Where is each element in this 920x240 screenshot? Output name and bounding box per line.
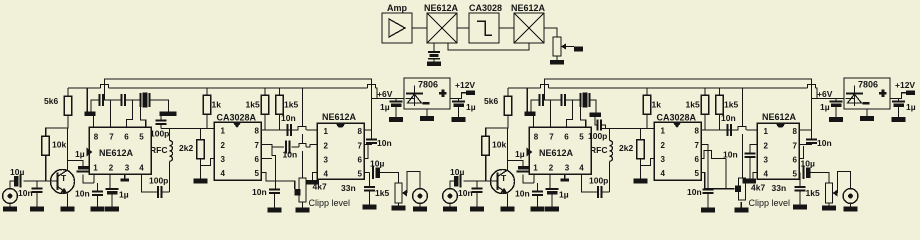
wire row to CA pin1 — [161, 128, 214, 130]
svg-text:1: 1 — [221, 127, 226, 136]
block Amp — [382, 3, 412, 43]
capacitor C pin6 — [122, 94, 126, 106]
block NE612A mixer2 — [511, 3, 546, 43]
wire blk4 — [544, 28, 557, 37]
ground under J1 #2 — [443, 203, 457, 212]
wire pin6b stub #2 — [799, 146, 804, 159]
svg-text:7: 7 — [109, 133, 114, 142]
ground emitter #2 — [501, 207, 515, 212]
resistor 5k6 #2 — [484, 96, 512, 115]
capacitor C pin8 — [100, 94, 104, 106]
IC CA3028A U2 — [214, 113, 261, 181]
svg-text:33n: 33n — [772, 183, 787, 193]
junction bar pin8 — [85, 112, 96, 117]
wire 10u to pot #2 — [811, 173, 830, 184]
ground emitter — [61, 207, 75, 212]
svg-text:1µ: 1µ — [380, 102, 390, 112]
svg-text:NE612A: NE612A — [322, 112, 357, 122]
ground under input 10n — [30, 192, 44, 212]
resistor 1k5 b #2 — [716, 95, 739, 114]
wire 6V vert — [371, 99, 373, 140]
svg-text:3: 3 — [565, 164, 570, 173]
wire 33n stem #2 — [799, 173, 801, 188]
wire pin5b out #2 — [799, 172, 800, 174]
svg-text:4: 4 — [139, 164, 144, 173]
ground 1u 6V #2 — [829, 107, 843, 122]
svg-text:6: 6 — [124, 133, 129, 142]
ground pin4b — [306, 180, 319, 185]
capacitor 10n row1 #2 — [721, 113, 736, 136]
wire blk crystal stem — [433, 43, 435, 51]
svg-text:CA3028A: CA3028A — [217, 113, 257, 123]
wire pin2 stub #2 — [549, 174, 551, 189]
ground 4k7 #2 — [734, 202, 748, 213]
capacitor 1u 6V #2 — [820, 102, 843, 113]
svg-text:+12V: +12V — [455, 80, 475, 90]
junction bar pin8 #2 — [525, 112, 536, 117]
regulator 7806 #2 — [844, 78, 890, 109]
wire cap2 row — [272, 144, 317, 148]
capacitor 10n input — [18, 188, 43, 198]
capacitor 33n — [341, 183, 375, 193]
input connector J1 #2 — [443, 189, 458, 204]
wire 2k2 bottom — [200, 159, 202, 179]
wire 4k7 feed2 #2 — [742, 134, 744, 178]
capacitor 10n pin1 #2 — [515, 189, 543, 199]
svg-text:1k5: 1k5 — [375, 188, 389, 198]
wire 100p lower right — [162, 191, 170, 193]
wire crystal right #2 — [590, 100, 597, 113]
svg-text:10µ: 10µ — [450, 167, 464, 177]
svg-text:+12V: +12V — [895, 80, 915, 90]
svg-text:CA3028A: CA3028A — [657, 113, 697, 123]
svg-text:6: 6 — [793, 156, 798, 165]
wire 10k bottom #2 — [485, 155, 487, 181]
wire 1u to pin1 — [83, 175, 94, 184]
ground J2 — [413, 203, 427, 212]
ground 7806 — [420, 109, 434, 121]
wire 10u to pot — [380, 173, 399, 184]
potentiometer 4k7 #2 — [735, 178, 766, 200]
block crystal — [428, 52, 440, 59]
wire 1u12 stem #2 — [898, 99, 900, 102]
wire capA left — [91, 100, 100, 112]
svg-text:1µ: 1µ — [75, 149, 85, 159]
wire 7806 right — [450, 93, 466, 99]
svg-text:1k5: 1k5 — [724, 100, 738, 110]
resistor 1k — [203, 95, 221, 114]
ground 4k7 — [296, 202, 310, 213]
capacitor 10n input #2 — [458, 188, 483, 198]
wire crystal right — [150, 100, 169, 112]
ground pin3 — [121, 179, 130, 182]
wire J1 to C 10u — [10, 181, 14, 189]
wire 1k5b top #2 — [719, 88, 721, 95]
wire row to CA pin1 #2 — [601, 128, 654, 130]
potentiometer 1k5 out #2 — [806, 183, 838, 203]
svg-text:5: 5 — [139, 133, 144, 142]
wire 1u6 stem #2 — [835, 99, 837, 102]
svg-text:NE612A: NE612A — [511, 3, 546, 13]
svg-text:8: 8 — [534, 133, 539, 142]
wire pin5 to crystal #2 — [581, 107, 586, 127]
wire pin7 stub up — [110, 100, 112, 127]
block NE612A mixer1 — [424, 3, 459, 43]
svg-text:2: 2 — [661, 141, 666, 150]
capacitor 1u pin2 #2 — [546, 189, 569, 200]
capacitor 1u 12V #2 — [892, 102, 916, 113]
wire RFC down #2 — [609, 161, 611, 192]
capacitor 10n pin7 — [252, 187, 280, 197]
svg-text:1µ: 1µ — [559, 190, 569, 200]
ground 33n #2 — [793, 191, 807, 210]
svg-text:3: 3 — [125, 164, 130, 173]
svg-text:7806: 7806 — [858, 80, 878, 90]
svg-text:+6V: +6V — [377, 89, 393, 99]
IC NE612A U3 — [317, 112, 364, 179]
wire CA pin3 jog — [201, 159, 215, 166]
ground pot out #2 — [822, 203, 836, 211]
ground 2k2 — [194, 179, 208, 184]
wire C10u to base #2 — [464, 180, 494, 182]
wire rail to junction bar #2 — [526, 88, 528, 112]
wire 2k2 bottom #2 — [640, 159, 642, 179]
resistor 2k2 #2 — [619, 140, 644, 159]
wire pin8b to 6V #2 — [799, 129, 812, 131]
wire collector tap #2 — [508, 161, 524, 167]
svg-text:2k2: 2k2 — [179, 143, 193, 153]
resistor 10k #2 — [482, 136, 507, 155]
capacitor C pin6 #2 — [562, 94, 566, 106]
wire 1k top — [206, 88, 208, 95]
capacitor 100p upper — [150, 121, 169, 139]
svg-text:3: 3 — [764, 156, 769, 165]
wire wiper to jack #2 — [838, 172, 851, 194]
output connector J2 — [413, 189, 428, 204]
supply rail lower #2 — [508, 85, 817, 99]
inductor RFC — [150, 129, 173, 162]
wire CA pin8 stub — [261, 129, 265, 131]
ground under input 10n #2 — [470, 192, 484, 212]
svg-text:3: 3 — [324, 156, 329, 165]
svg-text:7: 7 — [549, 133, 554, 142]
wire 1k5b bottom — [279, 114, 281, 130]
svg-text:2: 2 — [764, 142, 769, 151]
IC CA3028A U2 #2 — [654, 113, 701, 181]
capacitor 100p lower #2 — [589, 176, 608, 199]
wire 1k bottom #2 — [646, 114, 648, 129]
svg-text:+6V: +6V — [817, 89, 833, 99]
wire capB to pin6 — [125, 100, 133, 127]
svg-text:5: 5 — [695, 169, 700, 178]
wire blk3 — [499, 27, 514, 29]
transistor T #2 — [491, 170, 515, 195]
capacitor 1u pin2 — [106, 189, 129, 200]
wire pin8 stub — [93, 116, 95, 127]
resistor 1k5 b — [276, 95, 299, 114]
svg-text:8: 8 — [255, 127, 260, 136]
svg-text:10n: 10n — [252, 187, 267, 197]
svg-text:7: 7 — [255, 141, 260, 150]
wire 7806 left #2 — [812, 98, 845, 100]
svg-text:8: 8 — [793, 127, 798, 136]
resistor 1k5 a #2 — [686, 95, 709, 114]
wire base — [54, 180, 58, 182]
wire 4k7 feed — [302, 88, 304, 126]
svg-text:1: 1 — [324, 127, 329, 136]
svg-text:1k5: 1k5 — [686, 100, 700, 110]
ground 2k2 #2 — [634, 179, 648, 184]
svg-text:2: 2 — [549, 164, 554, 173]
wire 100p lower left #2 — [581, 174, 598, 192]
svg-text:8: 8 — [358, 127, 363, 136]
svg-text:NE612A: NE612A — [99, 148, 134, 158]
wire row capB #2 — [551, 99, 562, 101]
svg-text:Amp: Amp — [387, 3, 408, 13]
resistor 1k #2 — [643, 95, 661, 114]
svg-text:5: 5 — [793, 170, 798, 179]
IC NE612A U3 #2 — [757, 112, 799, 179]
ground pin3 #2 — [561, 179, 570, 182]
ground 1u pin2 #2 — [545, 195, 559, 212]
svg-text:100p: 100p — [150, 129, 169, 139]
svg-text:1: 1 — [764, 127, 769, 136]
svg-text:6: 6 — [255, 155, 260, 164]
svg-text:6: 6 — [358, 156, 363, 165]
ground pot out — [392, 203, 406, 211]
wire 4k7 feed3 — [302, 151, 304, 178]
wire pin2 stub — [109, 174, 111, 189]
svg-text:3: 3 — [661, 155, 666, 164]
svg-text:10µ: 10µ — [10, 167, 24, 177]
svg-text:1µ: 1µ — [119, 190, 129, 200]
svg-text:5: 5 — [358, 170, 363, 179]
capacitor 10u out #2 — [801, 159, 815, 180]
block pot — [553, 37, 574, 56]
svg-text:5k6: 5k6 — [484, 96, 498, 106]
wire 1k5a top — [264, 88, 266, 95]
ground bar crystal #2 — [590, 113, 602, 118]
svg-text:4: 4 — [661, 169, 666, 178]
wire blk carrier — [448, 43, 529, 50]
svg-text:2k2: 2k2 — [619, 143, 633, 153]
wire row to crystal — [133, 99, 141, 101]
svg-text:1k5: 1k5 — [246, 100, 260, 110]
svg-text:1: 1 — [533, 164, 538, 173]
wire 2k2 top #2 — [640, 129, 642, 140]
ground block crystal — [427, 60, 441, 67]
input connector J1 — [3, 189, 18, 204]
svg-text:1µ: 1µ — [906, 102, 916, 112]
svg-text:10k: 10k — [52, 140, 66, 150]
wire blk1 — [412, 27, 427, 29]
svg-text:100p: 100p — [149, 176, 168, 186]
svg-text:10µ: 10µ — [801, 159, 815, 169]
wire 1k top #2 — [646, 88, 648, 95]
wire CA pin5 to 4k7 wiper — [261, 173, 295, 190]
wire 10k bottom — [45, 155, 47, 181]
svg-text:10n: 10n — [515, 189, 530, 199]
svg-text:5: 5 — [255, 169, 260, 178]
svg-text:10n: 10n — [458, 188, 473, 198]
capacitor 10u out — [370, 159, 384, 180]
svg-text:5k6: 5k6 — [44, 96, 58, 106]
ground 1u 12V #2 — [892, 107, 906, 122]
svg-text:8: 8 — [94, 133, 99, 142]
wire 4k7 feed2 — [302, 134, 304, 143]
wire 10n pin1 stem #2 — [537, 183, 539, 192]
svg-text:1k: 1k — [652, 100, 662, 110]
wire pin5 to crystal — [141, 107, 146, 127]
wire 1k5a bottom — [264, 114, 266, 130]
wire bar to 100p — [160, 116, 162, 121]
wire pin1 stub #2 — [533, 174, 535, 183]
svg-text:1k5: 1k5 — [806, 188, 820, 198]
svg-text:T: T — [501, 173, 507, 183]
inductor RFC #2 — [590, 129, 613, 162]
svg-text:2: 2 — [109, 164, 114, 173]
capacitor 1u coupling — [75, 149, 90, 172]
wire CA pin8 stub #2 — [701, 129, 705, 131]
svg-text:NE612A: NE612A — [424, 3, 459, 13]
svg-text:10n: 10n — [18, 188, 33, 198]
wire pin7b stub #2 — [799, 143, 812, 145]
capacitor 100p lower — [149, 176, 168, 199]
wire row1 — [265, 127, 317, 131]
capacitor 1u coupling #2 — [515, 149, 530, 172]
input arrow marker — [87, 148, 93, 157]
crystal X1 — [141, 93, 150, 108]
wire collector riser — [67, 115, 70, 170]
wire 33n stem — [369, 173, 371, 188]
svg-text:T: T — [61, 173, 67, 183]
wire 4k7 feed #2 — [742, 88, 744, 126]
regulator 7806 — [404, 78, 450, 109]
svg-text:10n: 10n — [283, 150, 298, 160]
ground 10n pin7 #2 — [701, 193, 715, 213]
ground pin4b #2 — [743, 179, 757, 184]
svg-text:1: 1 — [93, 164, 98, 173]
supply rail upper — [105, 79, 372, 100]
svg-text:NE612A: NE612A — [762, 112, 797, 122]
potentiometer 1k5 out — [375, 183, 407, 203]
capacitor 10u input #2 — [450, 167, 464, 188]
block output terminal — [574, 47, 583, 52]
ground 33n — [363, 191, 377, 210]
svg-text:1µ: 1µ — [515, 149, 525, 159]
svg-text:4: 4 — [764, 170, 769, 179]
output connector J2 #2 — [843, 189, 858, 204]
svg-text:6: 6 — [564, 133, 569, 142]
svg-text:10n: 10n — [721, 113, 736, 123]
wire pin2b cap down #2 — [749, 157, 751, 179]
wire emitter down #2 — [507, 194, 509, 207]
supply rail upper #2 — [545, 79, 812, 100]
svg-text:Clipp level: Clipp level — [749, 198, 791, 208]
ground 7806 #2 — [860, 109, 874, 121]
capacitor 10u input — [10, 167, 24, 188]
wire CA pin6 hop row2 #2 — [701, 151, 726, 159]
svg-text:33n: 33n — [341, 183, 356, 193]
wire 100p to row #2 — [601, 125, 606, 129]
capacitor 10n row2 — [283, 141, 298, 160]
ground under J1 — [3, 203, 17, 212]
wire blk2 — [457, 27, 469, 29]
wire pin2b stub #2 — [750, 145, 757, 154]
wire 7806 right #2 — [890, 93, 906, 99]
svg-text:10k: 10k — [492, 140, 506, 150]
svg-text:10µ: 10µ — [370, 159, 384, 169]
ground 1u 12V — [452, 107, 466, 122]
capacitor C pin8 #2 — [540, 94, 544, 106]
ground block pot — [550, 56, 564, 65]
wire 1k5a bottom #2 — [704, 114, 706, 130]
wire pin8b to 6V — [364, 129, 372, 131]
wire pin6b stub — [364, 145, 368, 159]
wire 1k5b bottom #2 — [719, 114, 721, 130]
input arrow marker #2 — [527, 148, 533, 157]
wire capA to vert #2 — [543, 99, 551, 101]
svg-text:10n: 10n — [687, 187, 702, 197]
wire collector tap — [68, 161, 84, 167]
svg-text:4: 4 — [324, 170, 329, 179]
capacitor 10n row1 — [281, 113, 296, 136]
wire rail to junction bar — [86, 88, 88, 112]
wire CA pin7 — [261, 145, 276, 190]
svg-text:10n: 10n — [817, 138, 832, 148]
ground J2 #2 — [844, 203, 858, 212]
wire J1 to C 10u #2 — [450, 181, 454, 189]
wire 10k top #2 — [486, 128, 508, 136]
wire capB to pin6 #2 — [565, 100, 573, 127]
capacitor 10n osc — [366, 138, 392, 148]
svg-text:7: 7 — [695, 141, 700, 150]
ground 10n pin7 — [268, 193, 282, 213]
wire 1u12 stem — [458, 99, 460, 102]
capacitor 10n pin7 #2 — [687, 187, 714, 197]
svg-text:CA3028: CA3028 — [469, 3, 502, 13]
wire row1 #2 — [705, 127, 757, 131]
wire pin5b out — [364, 172, 370, 174]
resistor 2k2 — [179, 140, 204, 159]
wire 6V vert #2 — [811, 99, 813, 140]
wire row capB — [111, 99, 122, 101]
wire 1u6 stem — [395, 99, 397, 102]
wire capA left #2 — [531, 100, 540, 112]
svg-text:5: 5 — [579, 133, 584, 142]
svg-text:10n: 10n — [75, 189, 90, 199]
label +6V — [377, 89, 393, 99]
svg-text:RFC: RFC — [590, 145, 607, 155]
svg-text:8: 8 — [695, 127, 700, 136]
wire 1k5b top — [279, 88, 281, 95]
wire CA pin6 stub — [261, 158, 272, 160]
wire capA to vert — [103, 99, 111, 101]
label Clipp level #2 — [749, 198, 791, 208]
wire wiper to jack — [407, 172, 420, 194]
wire pin7 stub up #2 — [550, 100, 552, 127]
wire bar to cap #2 — [595, 117, 598, 125]
transistor T — [51, 170, 75, 195]
wire 10n to ground — [36, 181, 38, 189]
svg-text:100p: 100p — [588, 131, 607, 141]
wire 1u to pin1 #2 — [523, 175, 534, 184]
wire 100p lower right #2 — [602, 191, 610, 193]
wire wiper line #2 — [705, 188, 735, 190]
wire CA pin3 jog #2 — [641, 159, 655, 166]
svg-text:4: 4 — [221, 169, 226, 178]
wire pin4b stub — [313, 173, 318, 181]
